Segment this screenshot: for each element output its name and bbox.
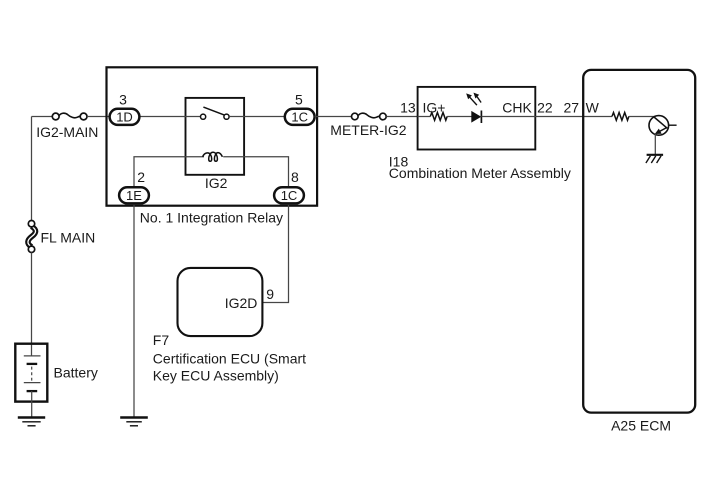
ground: ECM internal chassis ground xyxy=(646,155,663,163)
wire: FL MAIN to battery positive plate xyxy=(31,252,33,356)
svg-text:1E: 1E xyxy=(126,188,142,203)
wire: coil right leg to pin 8 xyxy=(223,157,288,188)
connector pin 1D xyxy=(110,109,140,125)
wire: coil left leg to pin 2 xyxy=(134,157,204,188)
wire: switch contact to pin 5 xyxy=(229,116,285,118)
fuse IG2-MAIN xyxy=(52,113,87,120)
meter box I18 xyxy=(418,87,536,150)
ground: battery xyxy=(18,418,45,426)
svg-text:A25 ECM: A25 ECM xyxy=(611,417,671,433)
connector pin 1E xyxy=(119,187,149,203)
svg-text:F7: F7 xyxy=(153,332,170,348)
svg-text:9: 9 xyxy=(266,286,274,302)
svg-text:13: 13 xyxy=(400,99,416,115)
wire: left vertical battery feed xyxy=(31,117,33,221)
relay box No. 1 Integration Relay xyxy=(107,67,318,205)
transistor: ECM output driver xyxy=(649,116,677,136)
wire: B+ feed horizontal to IG2-MAIN fuse xyxy=(32,116,53,118)
wire: pin 3 to switch contact xyxy=(139,116,200,118)
ground: relay pin 2 xyxy=(120,418,148,426)
wire: IG2-MAIN fuse to relay pin 3 xyxy=(87,116,110,118)
svg-text:8: 8 xyxy=(291,169,299,185)
svg-text:27: 27 xyxy=(564,99,580,115)
svg-text:1C: 1C xyxy=(281,188,298,203)
ECM box A25 xyxy=(583,70,695,413)
svg-text:2: 2 xyxy=(137,169,145,185)
svg-text:5: 5 xyxy=(295,91,303,107)
wire: battery negative to ground xyxy=(31,391,33,417)
svg-text:Battery: Battery xyxy=(54,364,98,380)
svg-text:Certification ECU (Smart: Certification ECU (Smart xyxy=(153,350,306,366)
svg-text:IG+: IG+ xyxy=(423,99,446,115)
svg-text:Combination Meter Assembly: Combination Meter Assembly xyxy=(389,165,571,181)
svg-text:3: 3 xyxy=(119,91,127,107)
battery xyxy=(15,344,47,402)
wire: pin 5 to METER-IG2 fuse xyxy=(315,116,352,118)
relay internal box xyxy=(186,98,245,175)
connector pin 1C (5) xyxy=(285,109,315,125)
svg-text:22: 22 xyxy=(537,99,553,115)
svg-text:IG2: IG2 xyxy=(205,175,228,191)
coil: relay coil IG2 xyxy=(203,152,223,161)
wire: pin 2 to ground xyxy=(133,203,135,417)
svg-text:No. 1 Integration Relay: No. 1 Integration Relay xyxy=(140,210,283,226)
svg-text:IG2D: IG2D xyxy=(225,295,258,311)
resistor: ECM pull-up xyxy=(612,113,629,121)
wire: resistor to LED xyxy=(447,116,471,118)
fusible link FL MAIN xyxy=(28,221,36,253)
resistor: meter bulb check resistor xyxy=(430,113,447,121)
svg-text:1D: 1D xyxy=(116,110,133,125)
LED: CHK indicator xyxy=(467,93,482,123)
wire: pin 8 down and left to ECU pin 9 xyxy=(263,203,289,302)
wire: METER-IG2 fuse to meter pin 13 xyxy=(386,116,417,118)
wire: LED to pins 22/27 through to ECM resistor xyxy=(481,116,612,118)
svg-text:1C: 1C xyxy=(291,110,308,125)
svg-text:Key ECU Assembly): Key ECU Assembly) xyxy=(153,367,279,383)
ECU F7 box xyxy=(178,268,263,336)
connector pin 1C (8) xyxy=(274,187,304,203)
svg-text:METER-IG2: METER-IG2 xyxy=(330,122,406,138)
switch: relay contact xyxy=(201,107,230,119)
svg-text:CHK: CHK xyxy=(502,99,532,115)
svg-text:W: W xyxy=(586,99,600,115)
svg-text:FL MAIN: FL MAIN xyxy=(41,230,96,246)
wire: resistor to transistor base xyxy=(629,116,655,118)
fuse METER-IG2 xyxy=(352,113,387,120)
wire: transistor emitter to chassis ground xyxy=(654,134,656,155)
wire: pin 13 to resistor xyxy=(418,116,431,118)
svg-text:IG2-MAIN: IG2-MAIN xyxy=(36,124,98,140)
